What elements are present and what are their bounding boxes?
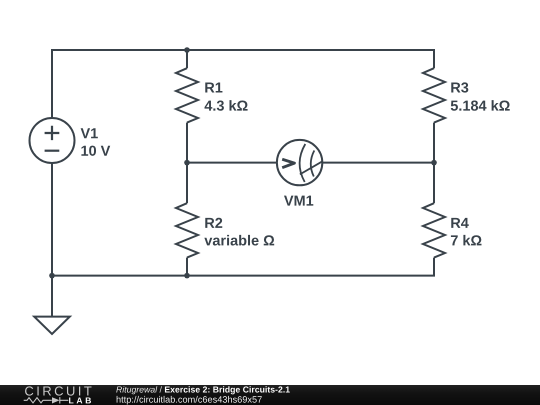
logo diode triangle bbox=[52, 397, 60, 403]
wire mid node to R2 bbox=[186, 163, 188, 204]
logo LAB text bbox=[69, 397, 91, 403]
wire bottom rail with right corner bbox=[52, 258, 434, 276]
wire mid-right node to R4 bbox=[433, 163, 435, 204]
footer line1 Exercise 2 Bridge Circuits-2.1 bbox=[165, 386, 290, 394]
logo wire with resistor zigzag bbox=[24, 397, 69, 403]
label 10 V bbox=[81, 146, 110, 156]
logo CIRCUIT text bbox=[25, 386, 91, 395]
label V1 bbox=[81, 128, 98, 138]
footer line2 url bbox=[117, 396, 262, 405]
logo diode bar and wire to LAB bbox=[60, 397, 69, 403]
label VM1 bbox=[284, 196, 313, 206]
footer bar bbox=[0, 385, 540, 405]
label R1 bbox=[205, 83, 222, 93]
label 5.184 kOhm bbox=[451, 100, 510, 111]
voltage source V1 bbox=[30, 118, 75, 163]
label R3 bbox=[451, 82, 468, 92]
footer line1 slash bbox=[160, 386, 162, 392]
resistor R3 bbox=[423, 68, 445, 122]
wire left vertical below V1 down to ground bbox=[51, 163, 53, 317]
wire R2 to bottom rail bbox=[186, 258, 188, 276]
label 4.3 kOhm bbox=[205, 100, 248, 111]
label variable Ohm bbox=[204, 235, 274, 246]
wire middle vertical top stub bbox=[186, 50, 188, 68]
node junction mid-right bbox=[431, 160, 437, 166]
label 7 kOhm bbox=[451, 235, 482, 246]
label R4 bbox=[451, 218, 468, 228]
voltmeter VM1 bbox=[277, 140, 322, 185]
resistor R4 bbox=[423, 203, 445, 257]
label R2 bbox=[205, 218, 222, 228]
wire mid horizontal left to voltmeter bbox=[187, 162, 277, 164]
wire top rail with left/right corners bbox=[52, 50, 434, 118]
node junction bottom-left bbox=[49, 273, 55, 279]
wire R1 to mid node bbox=[186, 123, 188, 163]
node junction top rail / R1 bbox=[184, 47, 190, 53]
footer line1 Ritugrewal bbox=[116, 386, 157, 394]
wire voltmeter to mid-right node bbox=[322, 162, 434, 164]
resistor R1 bbox=[176, 68, 198, 122]
node junction bottom / R2 bbox=[184, 273, 190, 279]
ground bbox=[34, 317, 70, 334]
wire R3 to mid-right node bbox=[433, 123, 435, 163]
resistor R2 bbox=[176, 203, 198, 257]
node junction mid-left bbox=[184, 160, 190, 166]
